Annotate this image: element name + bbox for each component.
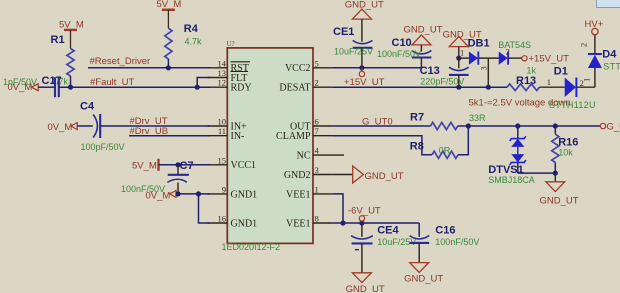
svg-text:C16: C16 bbox=[435, 225, 455, 237]
resistor R8 bbox=[410, 141, 458, 159]
wire OUT row (left of R7) bbox=[332, 125, 430, 127]
svg-text:R1: R1 bbox=[51, 34, 65, 46]
svg-text:U?: U? bbox=[227, 40, 235, 48]
svg-text:SMBJ18CA: SMBJ18CA bbox=[488, 175, 535, 185]
power port +15V_UT (below VCC2 rail) bbox=[344, 68, 385, 88]
svg-text:10: 10 bbox=[218, 117, 227, 127]
svg-text:DB1: DB1 bbox=[468, 38, 490, 50]
svg-text:-6V_UT: -6V_UT bbox=[348, 206, 381, 217]
svg-text:0V_M: 0V_M bbox=[48, 122, 73, 133]
svg-text:D4: D4 bbox=[602, 48, 617, 60]
ground GND_UT (below R16) bbox=[540, 173, 579, 206]
ground GND_UT (above DB1) bbox=[443, 30, 482, 47]
svg-text:R4: R4 bbox=[184, 23, 199, 35]
junction DB1 pin3 bbox=[486, 85, 491, 90]
power port 0V_M (C4 row) bbox=[48, 122, 78, 133]
svg-text:R8: R8 bbox=[410, 141, 424, 153]
svg-text:GND_UT: GND_UT bbox=[404, 274, 443, 285]
svg-text:GND_UT: GND_UT bbox=[365, 171, 404, 182]
svg-text:2: 2 bbox=[315, 78, 319, 88]
junction R1 bottom bbox=[68, 85, 73, 90]
svg-text:+15V_UT: +15V_UT bbox=[344, 77, 385, 88]
svg-text:33R: 33R bbox=[469, 113, 486, 123]
svg-text:2: 2 bbox=[579, 43, 589, 47]
resistor R1 bbox=[51, 34, 75, 87]
ground GND_UT (below C16) bbox=[404, 263, 443, 285]
wire 5V_M to pin 15 bbox=[159, 164, 211, 166]
svg-text:1ED020I12-F2: 1ED020I12-F2 bbox=[222, 242, 281, 252]
svg-text:220pF/50V: 220pF/50V bbox=[420, 76, 464, 86]
pin 13 FLT bbox=[208, 68, 248, 84]
capacitor CE4 (polarized) bbox=[351, 223, 399, 273]
pin 15 VCC1 bbox=[208, 155, 256, 171]
svg-text:CE4: CE4 bbox=[377, 225, 399, 237]
svg-text:+15V_UT: +15V_UT bbox=[529, 53, 570, 64]
svg-text:C10: C10 bbox=[392, 37, 412, 49]
wire #Reset_Driver to pin 14 bbox=[88, 67, 210, 69]
svg-text:GND_UT: GND_UT bbox=[404, 24, 443, 35]
svg-text:C13: C13 bbox=[420, 65, 440, 77]
svg-text:14: 14 bbox=[218, 58, 227, 68]
pin 9 GND1 bbox=[208, 184, 258, 200]
junction C13 bottom bbox=[456, 85, 461, 90]
svg-text:DTVS1: DTVS1 bbox=[488, 164, 523, 176]
pin 2 DESAT bbox=[279, 78, 332, 94]
capacitor C7 bbox=[167, 160, 193, 194]
wire DESAT row bbox=[332, 86, 507, 88]
svg-text:GND_UT: GND_UT bbox=[346, 284, 385, 293]
power port -6V_UT bbox=[348, 206, 381, 221]
resistor R16 bbox=[552, 126, 579, 173]
svg-text:#Reset_Driver: #Reset_Driver bbox=[90, 56, 151, 67]
svg-text:6: 6 bbox=[315, 117, 319, 127]
power port 5V_M (above R1) bbox=[59, 20, 84, 49]
junction VEE1 pins bbox=[340, 220, 345, 225]
pin 8 VEE1 bbox=[286, 214, 332, 230]
resistor R7 bbox=[410, 112, 486, 130]
svg-text:100nF/50V: 100nF/50V bbox=[435, 237, 479, 247]
svg-text:IN-: IN- bbox=[231, 131, 245, 142]
svg-text:VEE1: VEE1 bbox=[286, 218, 310, 229]
resistor R13 bbox=[507, 65, 540, 90]
junction C7 bottom bbox=[175, 191, 180, 196]
pin 12 RDY bbox=[208, 78, 252, 94]
svg-text:1k: 1k bbox=[527, 65, 537, 75]
wire TVS bottom to R16 bottom bbox=[518, 172, 556, 174]
diode D4 STTH112U (vertical) bbox=[579, 35, 618, 68]
pin 6 OUT bbox=[290, 117, 332, 133]
svg-text:CE1: CE1 bbox=[333, 26, 354, 38]
svg-text:GND_UT: GND_UT bbox=[540, 195, 579, 206]
svg-text:1: 1 bbox=[582, 78, 592, 82]
svg-text:VCC1: VCC1 bbox=[231, 160, 257, 171]
svg-text:7: 7 bbox=[315, 126, 319, 136]
pin 1 VEE1 bbox=[286, 184, 332, 200]
diode DB1 (BAT54S dual) bbox=[459, 38, 531, 88]
capacitor C17 (series, vertical plates) bbox=[42, 75, 62, 97]
capacitor C13 bbox=[420, 58, 469, 87]
svg-text:9: 9 bbox=[222, 184, 226, 194]
junction R16 branch bbox=[553, 123, 558, 128]
svg-text:1: 1 bbox=[315, 184, 319, 194]
pin 14 RST bbox=[208, 58, 250, 74]
svg-text:10k: 10k bbox=[558, 148, 573, 158]
ground GND_UT (above C10) bbox=[404, 24, 443, 45]
capacitor C16 bbox=[410, 223, 456, 263]
junction R8 branch bbox=[466, 123, 471, 128]
svg-text:100pF/50V: 100pF/50V bbox=[81, 142, 125, 152]
wire C4 to pin 10 bbox=[100, 125, 210, 127]
wire VEE rail bbox=[332, 222, 419, 224]
svg-text:8: 8 bbox=[315, 214, 319, 224]
junction DB1 anode node bbox=[456, 56, 461, 61]
wire R13 to D1 bbox=[540, 86, 565, 88]
junction R4/reset wire bbox=[166, 65, 171, 70]
wire 0V_M to C17 bbox=[38, 86, 54, 88]
power port +15V_UT (right of DB1) bbox=[522, 53, 569, 64]
wire OUT row (right of R7) bbox=[458, 125, 600, 127]
wire branch down to pin 16 bbox=[199, 194, 211, 223]
svg-text:G_UT: G_UT bbox=[607, 121, 620, 132]
svg-text:VCC2: VCC2 bbox=[285, 63, 311, 74]
IC U? gate driver body bbox=[227, 48, 313, 244]
svg-text:2: 2 bbox=[506, 46, 510, 56]
svg-text:1: 1 bbox=[460, 48, 464, 58]
power port 5V_M (VCC1) bbox=[132, 159, 159, 172]
pin 4 NC (no connect stub) bbox=[297, 146, 344, 162]
svg-text:15: 15 bbox=[218, 155, 227, 165]
svg-text:GND2: GND2 bbox=[284, 170, 311, 181]
svg-text:13: 13 bbox=[218, 68, 227, 78]
junction DTVS branch bbox=[515, 123, 520, 128]
junction GND1 branch bbox=[196, 191, 201, 196]
svg-text:STTH112U: STTH112U bbox=[549, 100, 596, 110]
wire GND to DB1 node bbox=[458, 47, 460, 59]
svg-text:BAT54S: BAT54S bbox=[498, 40, 531, 50]
svg-text:100nF/50V: 100nF/50V bbox=[377, 49, 421, 59]
svg-text:11: 11 bbox=[218, 126, 226, 136]
svg-text:3: 3 bbox=[315, 165, 319, 175]
svg-text:10uF/25V: 10uF/25V bbox=[334, 46, 373, 56]
svg-text:GND_UT: GND_UT bbox=[345, 0, 384, 10]
pin 16 GND1 bbox=[208, 214, 258, 230]
svg-text:C4: C4 bbox=[80, 100, 95, 112]
junction fault jog bbox=[195, 85, 200, 90]
wire CLAMP to R8 bbox=[332, 136, 432, 155]
junction C7 top bbox=[175, 162, 180, 167]
svg-text:5V_M: 5V_M bbox=[157, 0, 182, 10]
power port 5V_M (above R4) bbox=[157, 0, 182, 28]
wire 0V_M to pin 9 bbox=[176, 193, 210, 195]
pin 5 VCC2 bbox=[285, 58, 332, 74]
power port 0V_M (GND1 row) bbox=[146, 190, 177, 201]
port G_UT (right edge) bbox=[600, 121, 620, 132]
wire fault row to pin 12 bbox=[60, 86, 211, 88]
svg-text:D1: D1 bbox=[554, 65, 568, 77]
svg-text:STTH112U: STTH112U bbox=[603, 62, 620, 72]
svg-text:4.7k: 4.7k bbox=[185, 37, 203, 47]
capacitor C4 (series, curved + straight plate) bbox=[93, 114, 100, 138]
ground GND_UT (above CE1) bbox=[345, 0, 384, 19]
junction CE4 top bbox=[359, 220, 364, 225]
svg-text:VEE1: VEE1 bbox=[286, 189, 310, 200]
power port 0V_M (fault row) bbox=[8, 82, 39, 93]
svg-text:5: 5 bbox=[315, 58, 319, 68]
wire 0V_M to C4 bbox=[77, 125, 93, 127]
wire R8 up to OUT row bbox=[458, 126, 468, 155]
capacitor CE1 (polarized) bbox=[333, 19, 373, 68]
svg-text:GND1: GND1 bbox=[231, 189, 258, 200]
TVS diode DTVS1 SMBJ18CA bbox=[488, 126, 526, 176]
svg-text:12: 12 bbox=[218, 78, 227, 88]
resistor R4 bbox=[165, 23, 202, 68]
ground GND_UT (GND2 pin, right-pointing) bbox=[332, 166, 403, 183]
pin 10 IN+ bbox=[208, 117, 247, 133]
junction CE1 / +15V_UT bbox=[359, 65, 364, 70]
ground GND_UT (below CE4) bbox=[346, 273, 385, 293]
pin 3 GND2 bbox=[284, 165, 333, 181]
svg-text:16: 16 bbox=[218, 214, 227, 224]
svg-text:RDY: RDY bbox=[231, 83, 252, 94]
svg-text:C7: C7 bbox=[180, 160, 194, 172]
decorative cut-off blue box (top-right) bbox=[597, 0, 620, 8]
wire VCC2 rail bbox=[332, 67, 421, 69]
wire to pin 11 bbox=[129, 135, 210, 137]
svg-text:CLAMP: CLAMP bbox=[276, 131, 311, 142]
capacitor C10 bbox=[392, 37, 432, 68]
wire VEE1 pin1 down to pin8 rail bbox=[332, 194, 343, 223]
svg-text:1: 1 bbox=[547, 77, 551, 87]
diode D1 STTH112U bbox=[547, 65, 595, 97]
svg-text:0V_M: 0V_M bbox=[146, 190, 171, 201]
svg-text:GND1: GND1 bbox=[231, 218, 258, 229]
svg-text:DESAT: DESAT bbox=[279, 83, 310, 94]
junction R16 bottom bbox=[553, 171, 558, 176]
svg-text:3: 3 bbox=[479, 66, 489, 70]
pin 7 CLAMP bbox=[276, 126, 332, 142]
svg-text:NC: NC bbox=[297, 151, 311, 162]
svg-text:0V_M: 0V_M bbox=[8, 82, 33, 93]
wire D1 cathode up to D4 bbox=[594, 68, 596, 87]
wire jog up to pin 13 bbox=[197, 78, 210, 88]
svg-text:R7: R7 bbox=[410, 112, 424, 124]
svg-text:5V_M: 5V_M bbox=[132, 160, 157, 171]
power port HV+ bbox=[585, 19, 604, 35]
pin 11 IN- bbox=[208, 126, 245, 142]
